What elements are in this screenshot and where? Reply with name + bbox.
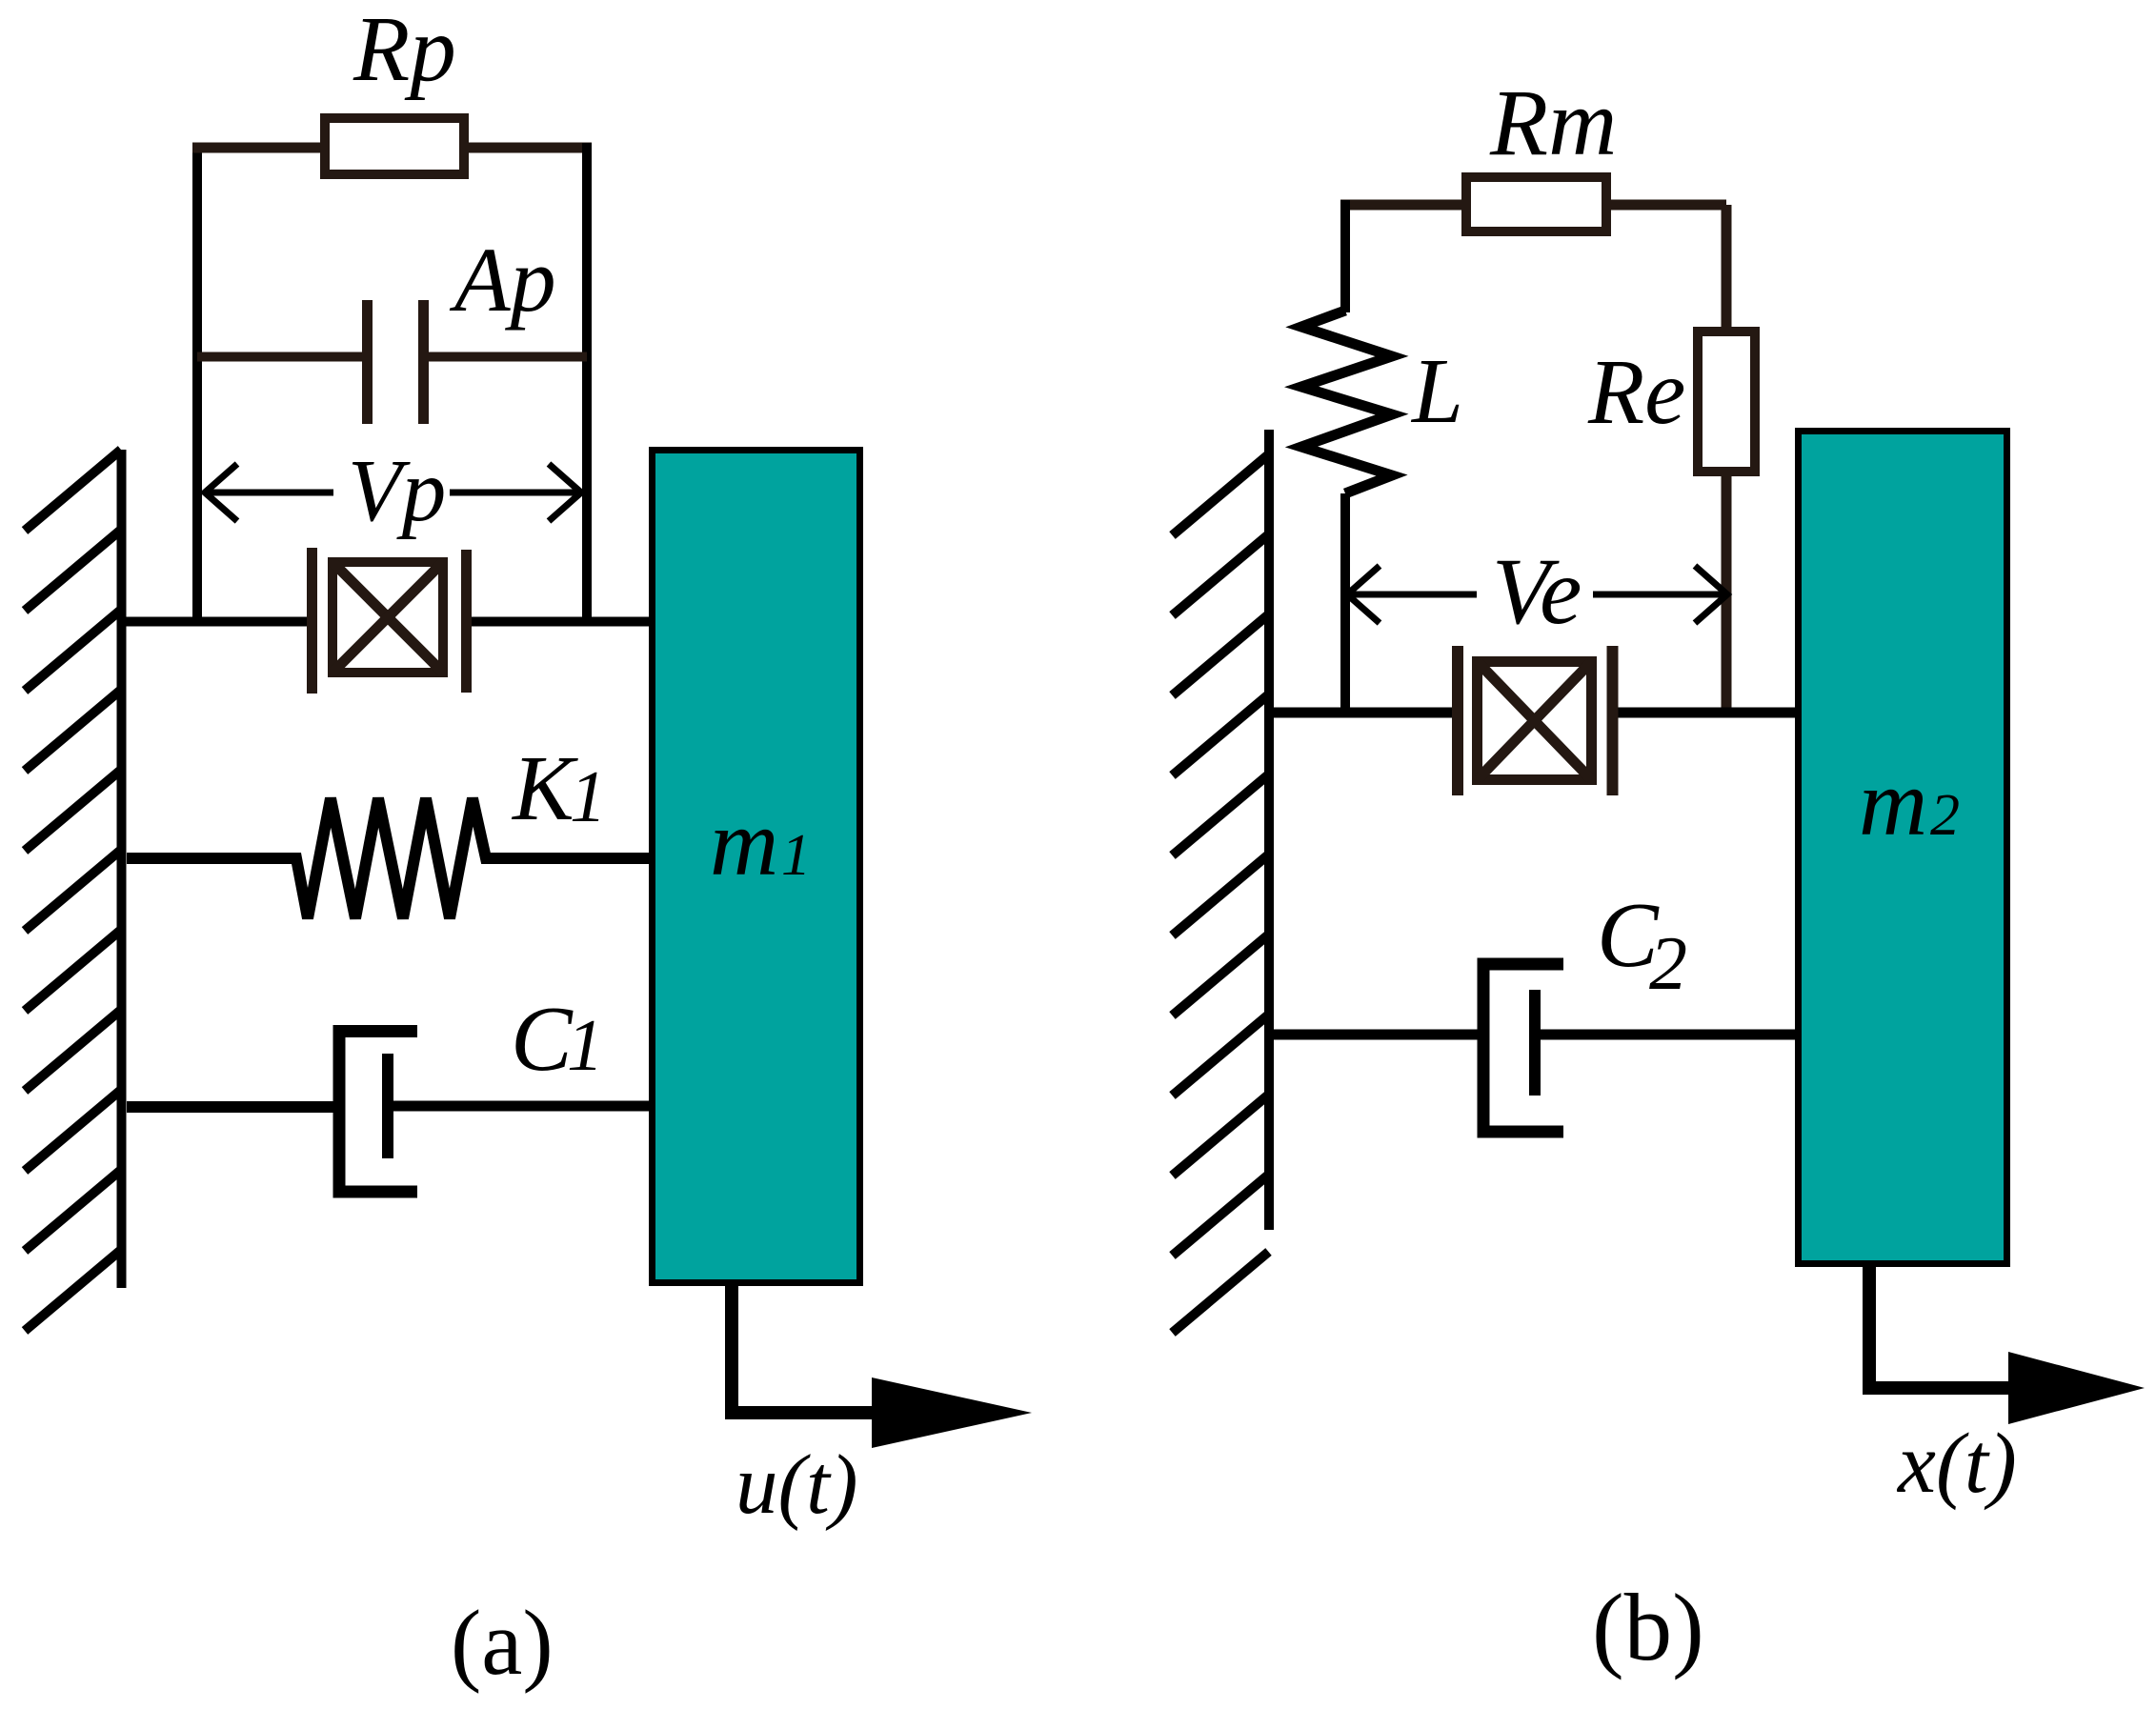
transducer (a) right end bar — [461, 550, 472, 693]
svg-text:2: 2 — [1649, 922, 1687, 1006]
arrowhead x(t) — [2008, 1352, 2145, 1424]
inductor L zigzag — [1301, 311, 1392, 493]
svg-text:L: L — [1410, 340, 1463, 442]
svg-text:m: m — [710, 790, 778, 895]
spring K1 — [127, 798, 649, 918]
damper C1 rod to mass — [388, 1101, 652, 1112]
wire: top loop horizontal (a) — [192, 143, 592, 153]
svg-text:Rm: Rm — [1489, 70, 1617, 175]
damper C1 cylinder — [339, 1032, 417, 1193]
transducer (b) box with X — [1478, 662, 1592, 780]
mass m1 — [653, 451, 860, 1283]
ground wall (b) — [1173, 430, 1270, 1333]
main wire (b) transducer to mass — [1618, 708, 1801, 718]
svg-text:Vp: Vp — [348, 442, 446, 540]
svg-text:Ve: Ve — [1492, 538, 1582, 644]
damper C1 wire from wall — [127, 1101, 335, 1113]
damper C2 cylinder — [1483, 964, 1563, 1132]
svg-text:m: m — [1859, 750, 1927, 855]
svg-text:x(t): x(t) — [1896, 1417, 2017, 1511]
wire: Re branch vertical to main line — [1722, 472, 1732, 713]
output stub (a) — [732, 1286, 905, 1413]
dimension arrow Vp — [205, 464, 581, 521]
svg-text:1: 1 — [567, 1004, 604, 1086]
dimension arrow Ve — [1347, 566, 1727, 623]
arrowhead u(t) — [872, 1377, 1032, 1448]
wire: L branch vertical to main line — [1340, 493, 1350, 713]
output stub (b) — [1869, 1267, 2029, 1388]
ground wall (a) — [25, 450, 122, 1331]
wire: top loop left vertical (a) — [192, 148, 202, 621]
transducer (b) left end bar — [1452, 646, 1463, 795]
capacitor Ap wires — [197, 352, 587, 362]
main wire (b) wall to transducer — [1269, 708, 1452, 718]
resistor Rp — [325, 118, 464, 174]
main wire (a) transducer to mass — [472, 617, 652, 627]
damper C2 piston — [1529, 990, 1541, 1096]
resistor Rm — [1466, 177, 1606, 231]
svg-text:K: K — [511, 737, 578, 839]
wire: loop (b) top horizontal — [1340, 200, 1726, 211]
transducer (a) left end bar — [307, 548, 317, 694]
damper C2 wire from wall — [1274, 1030, 1479, 1040]
svg-text:1: 1 — [570, 755, 607, 837]
main wire (a) wall to transducer — [122, 617, 307, 627]
damper C1 piston — [382, 1054, 393, 1158]
capacitor Ap plates — [368, 300, 424, 424]
damper C2 rod to mass — [1535, 1030, 1798, 1040]
svg-text:Rp: Rp — [353, 0, 456, 100]
wire: loop (b) left corner vertical — [1340, 200, 1350, 312]
mass m2 — [1799, 432, 2007, 1264]
svg-text:Ap: Ap — [449, 229, 556, 331]
svg-text:(b): (b) — [1592, 1574, 1704, 1680]
svg-text:1: 1 — [781, 823, 811, 888]
transducer (a) box with X — [332, 562, 443, 673]
transducer (b) right end bar — [1607, 646, 1619, 795]
svg-text:C: C — [511, 988, 574, 1090]
svg-text:2: 2 — [1930, 783, 1960, 848]
resistor Re — [1698, 332, 1755, 472]
wire: loop (b) right corner vertical — [1722, 205, 1732, 332]
svg-text:Re: Re — [1587, 341, 1685, 443]
svg-text:(a): (a) — [451, 1592, 554, 1694]
svg-text:u(t): u(t) — [735, 1438, 858, 1532]
wire: top loop right vertical (a) — [582, 143, 592, 621]
